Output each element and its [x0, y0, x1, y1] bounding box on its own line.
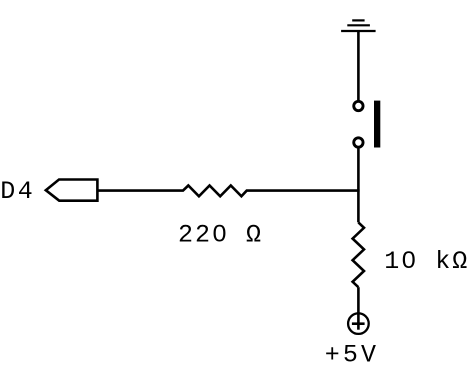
svg-text:+5V: +5V — [325, 341, 379, 366]
svg-text:10 kΩ: 10 kΩ — [384, 247, 469, 276]
svg-text:D4: D4 — [0, 177, 35, 206]
